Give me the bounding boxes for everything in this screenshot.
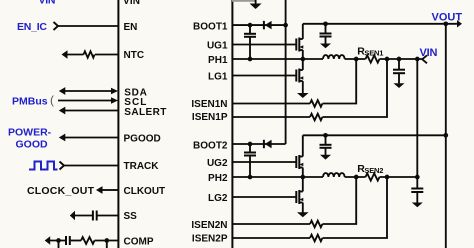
arrow NTC (left-pointing) <box>62 50 68 58</box>
wire SS right <box>98 215 119 217</box>
wire LG1 <box>232 75 295 77</box>
wire BOOT2 <box>232 143 285 145</box>
wire COMP right <box>95 240 119 242</box>
capacitor C3 stem <box>325 135 327 145</box>
junction dot L2/ISEN2N <box>354 175 359 180</box>
wire Q2 source down <box>302 81 304 93</box>
svg-text:ISEN2N: ISEN2N <box>191 220 227 231</box>
svg-text:SEN1: SEN1 <box>364 48 383 57</box>
svg-text:GOOD: GOOD <box>16 139 49 151</box>
ground below C1 <box>320 44 331 49</box>
svg-text:VIN: VIN <box>123 0 140 7</box>
top rail phase 1 (VOUT) <box>303 23 458 25</box>
arrow SCL right head <box>111 97 118 103</box>
capacitor C4 stem <box>416 177 418 189</box>
svg-text:LG2: LG2 <box>208 193 228 204</box>
junction dot Cboot2/PH2 <box>248 175 253 180</box>
square-wave symbol at TRACK <box>29 162 58 170</box>
wire ISEN1P to kelvin tap <box>323 59 388 117</box>
wire PGOOD <box>65 137 118 139</box>
junction dot VIN feed <box>415 57 420 62</box>
wire BOOT1 <box>232 24 285 26</box>
junction dot rail2/C3 <box>323 133 328 138</box>
capacitor C2 stem bottom <box>398 73 400 83</box>
wire UG1 <box>232 44 295 46</box>
svg-text:ISEN1N: ISEN1N <box>191 99 227 110</box>
arrow SS left head <box>70 211 75 220</box>
svg-text:VIN: VIN <box>420 47 438 59</box>
wire ISEN1N <box>232 103 310 105</box>
resistor ISEN2N <box>310 221 322 228</box>
diode D2 (boot diode) <box>263 140 265 148</box>
capacitor Cboot2 plates <box>244 152 256 154</box>
capacitor Cboot1 stem bottom <box>249 37 251 59</box>
junction dot PH2/Q3Q4 <box>300 175 305 180</box>
svg-text:CLKOUT: CLKOUT <box>124 186 166 197</box>
ground below Q2 <box>297 93 309 98</box>
resistor ISEN2P <box>310 235 322 242</box>
capacitor Cboot1 stem top <box>249 25 251 34</box>
resistor on COMP line <box>81 237 95 244</box>
wire COMP left <box>49 240 65 242</box>
terminal chevron VIN <box>422 55 427 63</box>
wire VIN feed vertical <box>416 59 418 177</box>
svg-text:UG2: UG2 <box>207 158 228 169</box>
wire stub down from COMP dot A <box>58 241 60 248</box>
wire Q4 drain to PH2 <box>302 177 304 192</box>
wire Q1 drain to top rail <box>302 24 304 39</box>
svg-text:UG1: UG1 <box>207 41 228 52</box>
capacitor on SS line <box>92 211 94 221</box>
junction dot RSEN2/ISEN2P <box>385 175 390 180</box>
terminal chevron EN_IC <box>54 22 59 30</box>
wire ISEN1N to kelvin tap <box>323 59 357 104</box>
inductor L2 <box>323 173 345 177</box>
wire ISEN1P <box>232 116 310 118</box>
svg-text:ISEN2P: ISEN2P <box>192 233 228 244</box>
junction dot BOOT1/Cboot1 <box>248 23 253 28</box>
junction dot BOOT1 diode anode node <box>283 23 288 28</box>
svg-text:PGOOD: PGOOD <box>124 133 161 144</box>
wire LG2 <box>232 196 295 198</box>
arrow COMP left head <box>45 236 51 245</box>
svg-text:COMP: COMP <box>124 236 154 247</box>
wire Q1 source to PH1 <box>302 50 304 59</box>
thermistor on NTC line <box>84 51 95 57</box>
top rail phase 2 (VOUT) <box>303 134 446 136</box>
wire SDA <box>65 90 113 92</box>
wire ISEN2N <box>232 223 310 225</box>
wire UG2 <box>232 161 295 163</box>
junction dot RSEN1/ISEN1P <box>385 57 390 62</box>
wire VOUT rail vertical <box>445 24 447 248</box>
svg-text:PMBus: PMBus <box>12 96 48 108</box>
wire RSEN1 to VIN terminal <box>380 58 422 60</box>
junction dot BOOT2/Cboot2 <box>248 142 253 147</box>
capacitor C2 plates <box>393 69 405 71</box>
junction dot C2 tap <box>397 57 402 62</box>
wire L1 to RSEN1 <box>345 58 366 60</box>
svg-text:PH1: PH1 <box>208 55 228 66</box>
wire TRACK <box>64 165 118 167</box>
wire RSEN2 to VIN feed <box>380 176 418 178</box>
wire Q4 source down <box>302 203 304 213</box>
capacitor C4 plates <box>411 188 423 190</box>
svg-text:SS: SS <box>124 211 138 222</box>
inductor L1 <box>323 55 345 59</box>
svg-text:TRACK: TRACK <box>124 161 160 172</box>
svg-text:CLOCK_OUT: CLOCK_OUT <box>27 185 95 197</box>
svg-text:EN: EN <box>124 22 138 33</box>
transistor Q2 (lower FET phase 1) <box>296 69 303 83</box>
svg-text:(: ( <box>50 93 54 107</box>
wire stub down from COMP dot B <box>106 241 108 248</box>
svg-text:EN_IC: EN_IC <box>17 21 47 33</box>
capacitor C4 stem bottom <box>416 192 418 203</box>
resistor ISEN1N <box>310 100 322 107</box>
arrow VOUT <box>457 20 462 27</box>
svg-text:POWER-: POWER- <box>8 127 52 139</box>
wire EN_IC to EN pin <box>58 25 118 27</box>
wire ISEN2N to kelvin tap <box>323 177 357 224</box>
capacitor Cboot1 plates <box>244 33 256 35</box>
wire CLKOUT <box>102 189 118 191</box>
wire 5V feed vertical (cropped at top) <box>285 0 287 144</box>
wire PH2 <box>232 176 323 178</box>
junction dot rail2/VOUT rail <box>443 133 448 138</box>
gray cropped bar at top <box>232 0 257 2</box>
junction dot PH1/Q1Q2 <box>300 57 305 62</box>
junction dot COMP B <box>104 238 109 243</box>
junction dot COMP A <box>56 238 61 243</box>
capacitor C2 stem <box>398 59 400 70</box>
svg-text:LG1: LG1 <box>208 72 228 83</box>
resistor RSEN2 <box>366 173 380 180</box>
svg-text:SALERT: SALERT <box>124 107 166 118</box>
capacitor C3 stem bottom <box>325 148 327 155</box>
svg-text:PH2: PH2 <box>208 173 228 184</box>
wire ISEN2P to kelvin tap <box>323 177 388 238</box>
junction dot Cboot1/PH1 <box>248 57 253 62</box>
junction dot rail1/VOUT rail <box>443 21 448 26</box>
arrow PGOOD left head <box>59 134 66 142</box>
svg-text:NTC: NTC <box>124 50 145 61</box>
capacitor Cboot2 stem bottom <box>249 156 251 178</box>
wire COMP mid <box>71 240 81 242</box>
arrow SALERT left head <box>59 107 66 115</box>
wire L2 to RSEN2 <box>345 176 366 178</box>
ground below C4 <box>412 203 423 208</box>
wire ISEN2P <box>232 237 310 239</box>
capacitor on COMP line <box>65 236 67 245</box>
capacitor C1 stem bottom <box>325 37 327 44</box>
junction dot VIN feed phase 2 <box>415 175 420 180</box>
wire SCL <box>58 100 113 102</box>
op-amp U1 (controller IC box right border) <box>231 0 233 248</box>
capacitor C1 stem <box>325 24 327 34</box>
transistor Q4 (lower FET phase 2) <box>296 190 303 204</box>
wire PH1 <box>232 58 323 60</box>
svg-text:SEN2: SEN2 <box>364 166 383 175</box>
capacitor C1 plates <box>320 33 332 35</box>
wire NTC left segment <box>66 54 84 56</box>
svg-text:VIN: VIN <box>39 0 56 7</box>
capacitor Cboot2 stem top <box>249 144 251 153</box>
ground below C2 <box>394 83 405 88</box>
wire Q2 drain to PH1 <box>302 59 304 70</box>
arrow SDA right head <box>111 88 118 94</box>
wire NTC to pin <box>95 54 118 56</box>
junction dot L1/ISEN1N <box>354 57 359 62</box>
ground below C3 <box>320 155 331 160</box>
op-amp U1 (controller IC box left border) <box>117 0 119 248</box>
arrow CLKOUT left head <box>96 186 103 194</box>
svg-text:VOUT: VOUT <box>432 11 463 23</box>
svg-text:ISEN1P: ISEN1P <box>192 112 228 123</box>
wire Q3 source to PH2 <box>302 168 304 178</box>
resistor RSEN1 <box>366 55 380 62</box>
svg-text:BOOT2: BOOT2 <box>193 140 228 151</box>
capacitor C3 plates <box>320 144 332 146</box>
resistor ISEN1P <box>310 114 322 121</box>
ground below Q4 <box>297 212 309 217</box>
wire SALERT <box>65 110 118 112</box>
wire Q3 drain to rail2 <box>302 135 304 156</box>
wire SS left <box>74 215 92 217</box>
down arrow symbol (cropped supply) <box>255 0 257 4</box>
terminal chevron TRACK <box>60 162 65 170</box>
transistor Q1 (upper FET phase 1) <box>296 38 303 52</box>
diode D1 (boot diode) <box>263 21 265 29</box>
transistor Q3 (upper FET phase 2) <box>296 155 303 169</box>
svg-text:BOOT1: BOOT1 <box>193 21 228 32</box>
arrow SDA left head <box>59 87 66 95</box>
junction dot rail1/C1 <box>323 21 328 26</box>
